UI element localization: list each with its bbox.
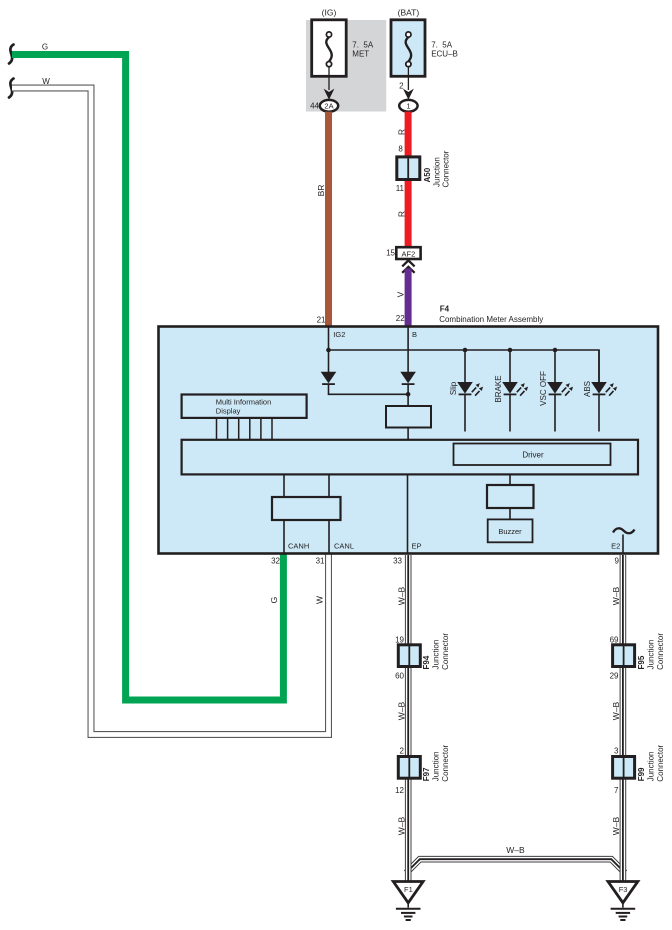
junction connector A50	[397, 157, 420, 180]
wire driver to buzzer	[509, 508, 511, 519]
fuse 7.5A ECU-B	[391, 20, 425, 77]
svg-text:12: 12	[395, 786, 404, 795]
wire IG2 internal	[328, 327, 330, 373]
svg-text:W–B: W–B	[397, 701, 407, 720]
svg-text:33: 33	[393, 557, 402, 566]
fuse block shading (IG)	[306, 20, 386, 112]
wire bus to CAN transceiver (CANH)	[283, 474, 285, 497]
chassis symbol at E2	[613, 528, 635, 533]
svg-text:F95: F95	[637, 655, 646, 669]
svg-text:7. 5A: 7. 5A	[431, 41, 453, 50]
svg-text:Multi Information: Multi Information	[216, 398, 271, 407]
ground point F3	[608, 882, 638, 921]
combination meter assembly box F4	[159, 327, 659, 554]
svg-text:CANH: CANH	[288, 542, 309, 551]
svg-text:W–B: W–B	[397, 816, 407, 835]
svg-text:Buzzer: Buzzer	[498, 527, 522, 536]
svg-text:VSC OFF: VSC OFF	[539, 371, 548, 406]
LED ABS	[591, 350, 617, 432]
wire W-B pin 33 to ground F1	[405, 555, 412, 881]
svg-text:F97: F97	[422, 767, 431, 781]
svg-text:Junction: Junction	[432, 640, 441, 670]
svg-text:Junction: Junction	[433, 157, 442, 187]
svg-text:AF2: AF2	[402, 249, 416, 258]
svg-text:G: G	[269, 597, 279, 604]
svg-text:Junction: Junction	[647, 752, 656, 782]
wire B internal	[407, 327, 409, 373]
svg-text:A50: A50	[423, 167, 432, 182]
svg-text:1: 1	[406, 102, 410, 111]
multi information display box	[182, 395, 307, 418]
svg-text:2A: 2A	[324, 102, 333, 111]
internal supply bus wire	[329, 350, 600, 383]
svg-text:W–B: W–B	[506, 845, 525, 855]
svg-text:11: 11	[396, 184, 405, 193]
CAN transceiver box	[272, 497, 341, 520]
wire W-B pin 9 to ground F3	[620, 555, 627, 881]
svg-text:19: 19	[395, 636, 404, 645]
wire transceiver to pin CANL	[328, 520, 330, 553]
svg-text:F99: F99	[637, 767, 646, 781]
LED VSC OFF	[547, 350, 573, 432]
node vsc off led	[553, 348, 558, 353]
svg-text:3: 3	[614, 747, 619, 756]
diode D1 (IG2)	[321, 372, 337, 384]
svg-text:(IG): (IG)	[322, 8, 337, 18]
svg-text:Driver: Driver	[522, 451, 544, 460]
svg-text:BRAKE: BRAKE	[494, 375, 503, 402]
svg-text:CANL: CANL	[334, 542, 354, 551]
svg-text:Junction: Junction	[432, 752, 441, 782]
svg-text:MET: MET	[352, 50, 369, 59]
svg-text:W–B: W–B	[611, 816, 621, 835]
svg-text:Junction: Junction	[647, 640, 656, 670]
label A50 Junction Connector	[423, 150, 451, 187]
node slip led	[463, 348, 468, 353]
svg-text:ECU–B: ECU–B	[431, 50, 458, 59]
svg-text:Connector: Connector	[441, 633, 450, 670]
label F97 Junction Connector	[422, 744, 450, 781]
svg-text:R: R	[396, 211, 406, 217]
svg-text:22: 22	[396, 314, 405, 323]
svg-text:Display: Display	[216, 407, 241, 416]
svg-text:Connector: Connector	[656, 633, 665, 670]
power supply box	[386, 406, 431, 428]
wire W (white, CAN low) from off-page to pin 31 CANL	[12, 88, 329, 735]
main internal bus box	[182, 440, 638, 475]
wire to pin E2	[622, 535, 624, 554]
node diode outputs	[406, 392, 411, 397]
svg-text:15: 15	[386, 249, 395, 258]
svg-text:(BAT): (BAT)	[398, 8, 420, 18]
svg-text:44: 44	[310, 102, 319, 111]
node brake led	[508, 348, 513, 353]
wire transceiver to pin CANH	[283, 520, 285, 553]
svg-text:W–B: W–B	[397, 586, 407, 605]
driver box	[454, 444, 611, 466]
svg-text:F4: F4	[440, 305, 450, 314]
svg-text:F3: F3	[619, 885, 628, 894]
svg-text:W: W	[315, 596, 325, 604]
svg-text:R: R	[396, 129, 406, 135]
connector AF2	[396, 247, 420, 259]
junction connector F94	[398, 645, 420, 667]
fuse 7.5A MET	[312, 20, 347, 77]
svg-text:W: W	[42, 77, 50, 86]
wire bus to CAN transceiver (CANL)	[328, 474, 330, 497]
svg-text:E2: E2	[611, 542, 620, 551]
svg-text:21: 21	[317, 316, 326, 325]
wire power box to main bus	[407, 428, 409, 441]
junction connector F99	[613, 757, 635, 779]
svg-text:Connector: Connector	[442, 150, 451, 187]
label F94 Junction Connector	[422, 633, 450, 670]
wire D2 to power box	[407, 384, 409, 406]
buzzer box	[488, 519, 533, 542]
svg-text:V: V	[396, 291, 406, 297]
wire fuse MET to connector 2A	[328, 67, 330, 91]
wire fuse ECU-B to connector 1	[407, 67, 409, 91]
wire W-B crosslink F1 to F3	[406, 859, 625, 873]
svg-text:7. 5A: 7. 5A	[352, 41, 374, 50]
connector 1	[399, 100, 417, 112]
diode D2 (B)	[400, 372, 416, 384]
wire bus to buzzer driver	[509, 474, 511, 485]
LED Slip	[457, 350, 483, 432]
svg-text:B: B	[412, 330, 417, 339]
wire D1 to node	[329, 384, 409, 394]
label F99 Junction Connector	[637, 744, 665, 781]
buzzer driver box	[487, 485, 534, 508]
ground point F1	[393, 882, 423, 921]
svg-text:BR: BR	[316, 185, 326, 197]
LED BRAKE	[502, 350, 528, 432]
wire R (red) connector 1 to A50	[405, 112, 412, 248]
junction connector F95	[613, 645, 635, 667]
off-page break symbol (lower, W wire)	[9, 79, 14, 98]
wire V (violet) to pin 22	[405, 269, 412, 328]
label F95 Junction Connector	[637, 633, 665, 670]
display bus pins	[217, 418, 273, 440]
svg-text:8: 8	[398, 145, 403, 154]
svg-text:31: 31	[316, 557, 325, 566]
arrow into connector 2A	[324, 89, 335, 100]
svg-text:G: G	[42, 43, 48, 52]
wire BR (brown) fuse MET to pin 21	[325, 112, 332, 327]
shield chevrons	[402, 260, 414, 272]
svg-text:Connector: Connector	[656, 744, 665, 781]
svg-text:2: 2	[400, 747, 405, 756]
svg-text:Connector: Connector	[441, 744, 450, 781]
wire bus to pin EP	[407, 474, 409, 553]
svg-text:Combination Meter Assembly: Combination Meter Assembly	[439, 315, 543, 324]
svg-text:EP: EP	[412, 542, 422, 551]
svg-text:29: 29	[610, 672, 619, 681]
svg-text:IG2: IG2	[333, 330, 345, 339]
node at IG2/bus	[326, 348, 331, 353]
svg-text:F94: F94	[422, 655, 431, 669]
arrow into connector 1	[403, 89, 414, 100]
svg-text:W–B: W–B	[611, 586, 621, 605]
svg-text:69: 69	[610, 636, 619, 645]
svg-text:9: 9	[615, 557, 620, 566]
connector 2A	[320, 100, 338, 112]
off-page break symbol (top, G wire)	[9, 45, 14, 64]
svg-text:F1: F1	[404, 885, 413, 894]
svg-text:7: 7	[614, 786, 619, 795]
junction connector F97	[398, 757, 420, 779]
svg-text:ABS: ABS	[583, 381, 592, 397]
wire G (green, CAN high) from off-page to pin 32 CANH	[12, 55, 283, 701]
svg-text:W–B: W–B	[611, 701, 621, 720]
svg-text:Slip: Slip	[449, 381, 458, 395]
svg-text:32: 32	[271, 557, 280, 566]
svg-text:60: 60	[395, 672, 404, 681]
